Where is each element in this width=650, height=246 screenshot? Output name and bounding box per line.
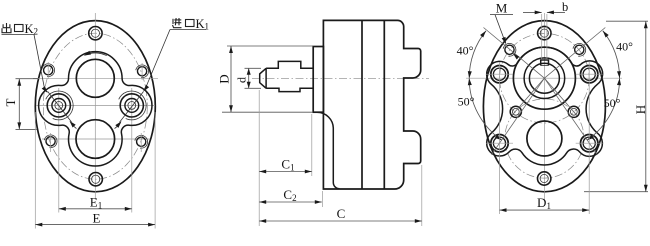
right view lower bolt circle dash-dot	[505, 99, 584, 178]
dimension E1 line	[59, 208, 132, 210]
lower stud hole right	[568, 106, 579, 117]
left view bolt-circle dash-dot oval	[43, 33, 147, 179]
label chu-kou K2 (outlet)	[2, 23, 11, 33]
svg-text:D1: D1	[537, 195, 551, 211]
upper-left port hole	[491, 66, 508, 83]
svg-text:D: D	[217, 74, 232, 83]
lower-right port hole	[581, 135, 598, 152]
right view top bolt hole	[538, 26, 551, 39]
svg-text:C: C	[337, 206, 346, 221]
flow arrow lower-left	[71, 122, 77, 128]
svg-text:E: E	[93, 210, 101, 225]
lower-left port hole	[491, 135, 508, 152]
middle view pump body outline	[323, 20, 420, 189]
driven gear boss circle	[527, 121, 562, 156]
dimension H extension lines	[606, 20, 648, 22]
drive shaft with key	[260, 61, 314, 91]
drive gear bore circle	[76, 59, 114, 97]
leader to inlet port	[144, 30, 170, 91]
C extension line	[421, 165, 423, 226]
D1 extension lines	[499, 62, 501, 214]
C1 extension lines	[258, 90, 260, 226]
40deg stud hole left (M)	[505, 45, 514, 54]
leader to outlet port	[34, 35, 47, 92]
left view UL stud hole	[44, 66, 53, 75]
left view top bolt hole	[89, 27, 102, 40]
50deg dimension arc right	[587, 78, 620, 140]
left view LR stud hole	[137, 137, 146, 146]
svg-text:E1: E1	[90, 195, 102, 211]
port vertical centerline / E1 extension right	[131, 88, 133, 213]
radial construction line to lower-left port	[492, 78, 545, 155]
svg-text:b: b	[562, 0, 568, 14]
dimension C line	[259, 220, 422, 222]
left view raised boss wavy outline	[39, 52, 152, 166]
flow arrow lower-right	[115, 123, 121, 129]
radial construction line UL-stud to LR-stud	[484, 28, 577, 116]
left view bottom bolt hole	[89, 173, 102, 186]
left view vertical centerline	[94, 13, 96, 200]
right view vertical centerline	[543, 13, 545, 200]
dimension C1 line	[259, 171, 312, 173]
front mounting flange	[313, 47, 323, 113]
left view LL stud hole	[46, 137, 55, 146]
label jin-kou K1 (inlet)	[173, 18, 182, 28]
svg-text:H: H	[633, 105, 648, 114]
left view horizontal centerline (ports)	[36, 104, 155, 106]
svg-text:40°: 40°	[457, 44, 474, 58]
dimension T line	[18, 79, 20, 130]
dimension H line	[645, 21, 647, 192]
svg-text:C1: C1	[281, 157, 294, 173]
50deg dimension arc left	[469, 78, 502, 140]
right view bottom bolt hole	[538, 172, 551, 185]
dimension D1 line	[500, 209, 590, 211]
left view horizontal centerline (lower studs)	[42, 138, 150, 140]
body/cover joint line 2	[383, 20, 385, 189]
dimension d line	[248, 68, 250, 88]
radial construction line to lower-right port	[544, 78, 597, 155]
svg-text:M: M	[496, 1, 508, 16]
left view horizontal centerline (drive gear)	[33, 77, 158, 79]
40deg dimension arc left	[469, 31, 486, 78]
radial construction line UR-stud to LL-stud	[512, 28, 605, 116]
port hole centerline ticks	[486, 73, 513, 75]
dimension T extension lines	[16, 78, 39, 80]
shaft seal circle	[524, 58, 565, 99]
bearing boss circle	[513, 47, 575, 109]
svg-text:C2: C2	[283, 187, 296, 203]
port vertical centerline / E1 extension left	[58, 88, 60, 213]
right view rear boss wavy outline	[487, 47, 603, 165]
body/cover joint line 1	[361, 20, 363, 189]
dimension E line	[35, 224, 155, 226]
middle view shaft centerline	[252, 77, 429, 79]
keyway slot	[541, 60, 549, 66]
40deg dimension arc right	[603, 31, 620, 78]
upper-right port hole	[581, 66, 598, 83]
dimension d extension lines	[245, 67, 262, 69]
dimension b arrows	[523, 11, 542, 13]
inlet port K1	[128, 102, 136, 110]
svg-text:d: d	[235, 77, 249, 83]
svg-text:50°: 50°	[458, 95, 475, 109]
dimension D extension lines	[227, 45, 313, 47]
dimension C2 line	[259, 201, 322, 203]
driven gear bore circle	[76, 120, 115, 159]
shaft bore circle	[529, 63, 559, 93]
rotation arrow over drive gear	[85, 53, 107, 56]
left view outer flange outline	[35, 21, 155, 192]
right view upper bolt circle dash-dot	[500, 33, 590, 123]
40deg stud hole right	[575, 45, 584, 54]
right view horizontal centerline	[466, 77, 622, 79]
left view UR stud hole	[138, 67, 147, 76]
lower stud hole left	[510, 106, 521, 117]
front cover boss edge	[317, 112, 340, 189]
svg-text:40°: 40°	[616, 40, 633, 54]
C2 extension line	[322, 191, 324, 207]
dimension b extension lines	[541, 14, 543, 59]
dimension D line	[230, 46, 232, 112]
right view outer flange outline	[483, 21, 605, 192]
outlet port K2	[55, 102, 63, 110]
dimension E extension lines	[34, 112, 36, 229]
svg-text:T: T	[3, 98, 18, 106]
svg-text:50°: 50°	[604, 96, 621, 110]
